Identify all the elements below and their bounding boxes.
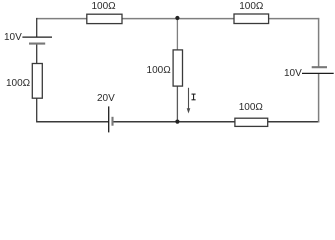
battery B3 20V bottom: negative short plate <box>111 117 113 126</box>
resistor R2 100ohm top-right <box>234 14 269 24</box>
svg-text:10V: 10V <box>284 68 302 79</box>
wire right branch lower (battery to bottom rail) <box>318 73 320 122</box>
wire top rail right segment <box>269 18 320 20</box>
wire bottom rail middle segment <box>112 121 234 123</box>
label current I (serif capital drawn as strokes) <box>192 94 196 100</box>
current arrow I (shaft) <box>188 88 190 109</box>
wire bottom rail right segment <box>268 121 320 123</box>
junction node bottom (middle branch / bottom rail) <box>175 120 179 124</box>
svg-text:100Ω: 100Ω <box>239 102 264 113</box>
battery B3 20V bottom: positive long plate <box>108 106 110 132</box>
svg-text:10V: 10V <box>4 32 22 43</box>
battery B1 10V left: negative short plate <box>29 43 45 45</box>
svg-text:100Ω: 100Ω <box>239 1 264 12</box>
resistor R5 100ohm bottom-right <box>235 118 268 126</box>
battery B2 10V right: positive long plate <box>302 72 334 74</box>
wire left branch mid (battery to resistor) <box>36 44 38 64</box>
wire bottom rail left segment <box>36 121 109 123</box>
current arrow I (head) <box>187 108 191 113</box>
svg-text:20V: 20V <box>97 93 115 104</box>
battery B1 10V left: positive long plate <box>22 36 52 38</box>
battery B2 10V right: negative short plate <box>312 66 327 68</box>
wire top rail middle segment <box>122 18 234 20</box>
wire middle branch lower (resistor to bottom node) <box>176 86 178 122</box>
svg-text:100Ω: 100Ω <box>6 78 31 89</box>
resistor R4 100ohm left branch <box>32 64 42 99</box>
wire middle branch upper (top node to resistor) <box>176 19 178 50</box>
wire top rail left segment <box>37 18 87 20</box>
svg-text:100Ω: 100Ω <box>92 1 117 12</box>
svg-text:100Ω: 100Ω <box>147 65 172 76</box>
resistor R3 100ohm middle branch <box>173 50 182 86</box>
wire left branch upper (corner to battery) <box>36 18 38 37</box>
resistor R1 100ohm top-left <box>87 14 122 23</box>
wire right branch upper (corner to battery) <box>318 18 320 67</box>
wire left branch lower (resistor to bottom rail) <box>36 98 38 122</box>
junction node top (middle branch / top rail) <box>175 16 179 20</box>
